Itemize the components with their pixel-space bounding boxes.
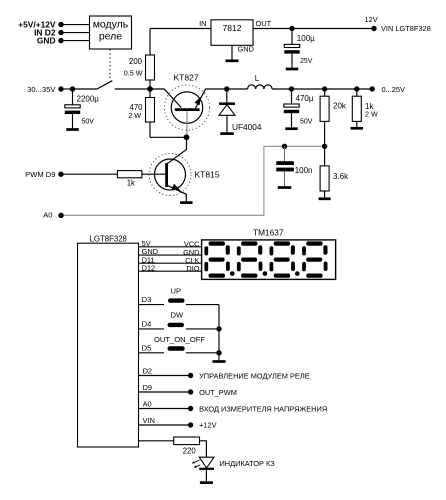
svg-text:20k: 20k bbox=[333, 102, 347, 111]
pin A0 endpoint bbox=[188, 406, 193, 411]
svg-text:UP: UP bbox=[171, 287, 182, 296]
svg-text:2 W: 2 W bbox=[365, 110, 378, 119]
svg-text:200: 200 bbox=[129, 57, 143, 66]
svg-text:0.5 W: 0.5 W bbox=[124, 68, 143, 77]
svg-text:ИНДИКАТОР КЗ: ИНДИКАТОР КЗ bbox=[220, 459, 276, 468]
svg-text:50V: 50V bbox=[82, 118, 95, 125]
svg-text:A0: A0 bbox=[43, 210, 52, 219]
svg-text:2200µ: 2200µ bbox=[77, 94, 100, 103]
wire R1k to KT815 base bbox=[142, 173, 165, 175]
svg-text:100µ: 100µ bbox=[297, 34, 315, 43]
decimal points bbox=[230, 271, 235, 276]
svg-text:0...25V: 0...25V bbox=[382, 85, 405, 94]
pin D9 wire bbox=[139, 391, 191, 393]
svg-text:TM1637: TM1637 bbox=[253, 228, 284, 238]
svg-text:100n: 100n bbox=[295, 166, 313, 175]
svg-text:KT827: KT827 bbox=[174, 73, 199, 83]
resistor 20k bbox=[324, 89, 326, 96]
svg-text:KT815: KT815 bbox=[195, 170, 220, 180]
svg-text:PWM D9: PWM D9 bbox=[25, 170, 55, 179]
wire D12 to DIO bbox=[139, 270, 202, 272]
svg-text:30...35V: 30...35V bbox=[27, 85, 56, 94]
svg-text:модуль: модуль bbox=[93, 18, 129, 30]
svg-text:A0: A0 bbox=[143, 399, 152, 408]
svg-text:DW: DW bbox=[171, 310, 184, 319]
svg-text:UF4004: UF4004 bbox=[232, 122, 262, 132]
wire to relay module pin2 bbox=[61, 32, 90, 34]
wire GND to GND bbox=[139, 254, 202, 256]
svg-text:D9: D9 bbox=[143, 383, 152, 392]
svg-text:УПРАВЛЕНИЕ МОДУЛЕМ РЕЛЕ: УПРАВЛЕНИЕ МОДУЛЕМ РЕЛЕ bbox=[199, 371, 310, 380]
resistor 220 bbox=[139, 440, 174, 442]
terminal 0...25V bbox=[370, 86, 375, 91]
svg-text:1k: 1k bbox=[127, 179, 135, 188]
inductor L bbox=[227, 88, 248, 90]
pin A0 wire bbox=[139, 408, 191, 410]
svg-text:7812: 7812 bbox=[223, 23, 242, 33]
7812 regulator U2 bbox=[211, 20, 253, 46]
terminal IN D2 bbox=[58, 30, 63, 35]
node 3.6k / 20k bottom bbox=[322, 144, 327, 149]
node D4/common bbox=[216, 326, 221, 331]
svg-text:D2: D2 bbox=[143, 366, 152, 375]
svg-text:реле: реле bbox=[99, 31, 122, 43]
svg-text:470µ: 470µ bbox=[296, 94, 314, 103]
node 100n bbox=[282, 144, 287, 149]
capacitor 100n bbox=[284, 146, 286, 161]
relay module box bbox=[90, 16, 132, 49]
buttons ground bbox=[213, 360, 226, 363]
svg-text:VIN: VIN bbox=[143, 416, 155, 425]
diode UF4004 bbox=[226, 89, 228, 103]
resistor 470 2W bbox=[149, 80, 151, 98]
LED indicator KZ bbox=[199, 457, 214, 468]
svg-text:VIN LGT8F328: VIN LGT8F328 bbox=[381, 24, 431, 33]
KT827 base lead bbox=[186, 111, 188, 137]
terminal 12V VIN bbox=[371, 26, 376, 31]
svg-text:3.6k: 3.6k bbox=[333, 172, 349, 181]
svg-text:D4: D4 bbox=[142, 319, 152, 328]
pin VIN endpoint bbox=[188, 422, 193, 427]
TM1637 7-segment digits 8.8.8.8 bbox=[204, 241, 327, 277]
switch SA1 arm bbox=[97, 81, 112, 89]
capacitor 470u 50V bbox=[291, 89, 293, 104]
capacitor 100u 25V bbox=[291, 29, 293, 45]
node D5/common bbox=[216, 350, 221, 355]
node junction at C 2200u bbox=[70, 86, 75, 91]
svg-text:2 W: 2 W bbox=[128, 111, 141, 120]
TM1637 display module box bbox=[202, 240, 336, 280]
capacitor 2200u 50V bbox=[72, 89, 74, 105]
node 470u bbox=[289, 86, 294, 91]
svg-text:OUT_PWM: OUT_PWM bbox=[199, 388, 237, 397]
LED light arrows bbox=[193, 460, 199, 463]
svg-text:L: L bbox=[255, 74, 260, 83]
wire 5V to VCC bbox=[139, 246, 202, 248]
resistor 200 0.5W bbox=[149, 29, 151, 56]
pin D2 endpoint bbox=[188, 373, 193, 378]
svg-text:D12: D12 bbox=[142, 263, 156, 272]
LED ground bbox=[200, 481, 213, 484]
7812 ground bbox=[231, 45, 233, 59]
pin D2 wire bbox=[139, 375, 191, 377]
resistor 3.6k bbox=[324, 146, 326, 166]
node 1k 2W bbox=[354, 86, 359, 91]
resistor 1k (base) bbox=[117, 171, 141, 178]
svg-text:25V: 25V bbox=[300, 58, 313, 65]
wire D11 to CLK bbox=[139, 262, 202, 264]
wire 7812 OUT to 12V terminal bbox=[253, 28, 374, 30]
wire input to junction bbox=[61, 88, 73, 90]
svg-text:12V: 12V bbox=[365, 15, 378, 24]
node KT827 base / KT815 collector bbox=[184, 134, 190, 140]
wire PWM D9 to R1k bbox=[61, 173, 117, 175]
wire junction to switch bbox=[73, 88, 98, 90]
svg-text:OUT: OUT bbox=[256, 19, 272, 28]
wire switch to node bbox=[115, 88, 150, 90]
svg-text:GND: GND bbox=[37, 35, 56, 45]
svg-text:ВХОД ИЗМЕРИТЕЛЯ НАПРЯЖЕНИЯ: ВХОД ИЗМЕРИТЕЛЯ НАПРЯЖЕНИЯ bbox=[199, 404, 327, 413]
wire R200 top to 7812 IN bbox=[150, 28, 211, 30]
svg-text:D3: D3 bbox=[142, 295, 152, 304]
svg-text:OUT_ON_OFF: OUT_ON_OFF bbox=[154, 335, 205, 344]
resistor 1k 2W bbox=[356, 89, 358, 96]
pin D9 endpoint bbox=[188, 389, 193, 394]
pin VIN wire bbox=[139, 424, 191, 426]
svg-text:50V: 50V bbox=[300, 118, 313, 125]
svg-text:DIO: DIO bbox=[186, 264, 199, 273]
terminal A0 bbox=[58, 213, 63, 218]
svg-text:LGT8F328: LGT8F328 bbox=[90, 235, 127, 244]
wire to relay module pin1 bbox=[61, 24, 90, 26]
svg-text:IN: IN bbox=[199, 19, 206, 28]
wire to relay module pin3 bbox=[61, 40, 90, 42]
dotted control link from relay module to switch bbox=[109, 50, 111, 80]
wire R470 bottom to base node bbox=[149, 122, 151, 137]
node diode/emitter bbox=[224, 86, 229, 91]
svg-text:D5: D5 bbox=[142, 343, 152, 352]
svg-text:+12V: +12V bbox=[199, 421, 217, 430]
buttons common vertical wire bbox=[218, 305, 220, 361]
svg-text:GND: GND bbox=[238, 44, 254, 53]
KT815 emitter ground bbox=[180, 201, 193, 204]
node 20k bbox=[322, 86, 327, 91]
wire R220 to LED bbox=[200, 441, 207, 457]
svg-text:220: 220 bbox=[183, 446, 197, 455]
node 100u bbox=[289, 26, 294, 31]
node: switch/R200/R470/KT827 collector bbox=[147, 86, 153, 92]
terminal GND bbox=[58, 38, 63, 43]
terminal +5V/+12V bbox=[58, 22, 63, 27]
